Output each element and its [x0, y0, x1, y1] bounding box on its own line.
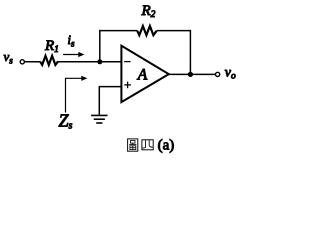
wire vs terminal to R1 [24, 61, 40, 63]
svg-text:vo: vo [225, 65, 236, 81]
wire feedback right vertical [189, 30, 191, 75]
svg-text:(a): (a) [158, 138, 175, 154]
node: inverting input junction dot [97, 59, 102, 64]
plus sign (non-inverting input) [124, 82, 131, 89]
wire feedback top right segment [157, 30, 191, 32]
svg-text:vs: vs [4, 49, 14, 66]
svg-text:A: A [137, 66, 148, 83]
svg-text:Zs: Zs [59, 111, 73, 132]
svg-text:R1: R1 [44, 38, 59, 55]
op-amp A (triangle) [121, 46, 168, 102]
ground [91, 115, 107, 123]
wire op-amp output to vo terminal [169, 73, 216, 75]
minus sign (inverting input) [124, 61, 130, 63]
svg-text:is: is [68, 33, 75, 49]
wire feedback top left segment [99, 30, 137, 32]
arrow is [63, 52, 84, 57]
resistor R2 [137, 26, 157, 35]
resistor R1 [40, 56, 58, 65]
terminal vs (open circle) [20, 60, 24, 64]
caption glyph 四 (four) [142, 140, 153, 150]
wire R1 to op-amp inverting input [57, 61, 122, 63]
wire non-inverting input to ground corner [99, 87, 121, 115]
wire feedback left vertical [99, 31, 101, 62]
node: output junction dot [188, 72, 193, 77]
terminal vo (open circle) [216, 72, 220, 76]
svg-text:R2: R2 [141, 3, 156, 20]
arrow Zs (input impedance pointer) [66, 76, 88, 113]
caption glyph 圖 (figure) [128, 139, 138, 151]
